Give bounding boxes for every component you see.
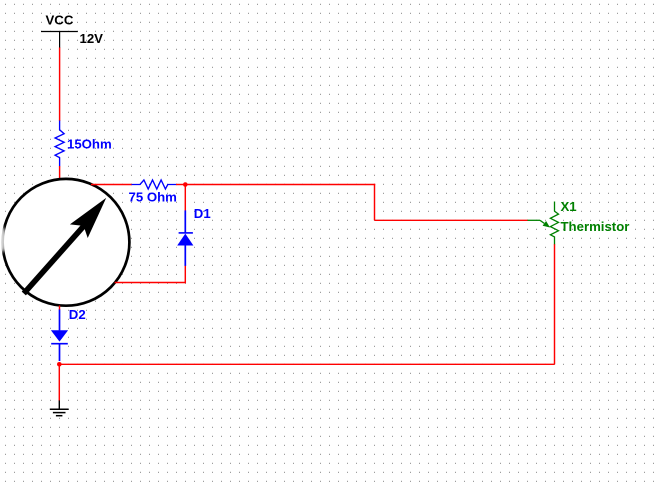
wire meter right to R 75 Ohm [91,184,132,186]
wire meter bottom to D2 [59,306,61,311]
wire VCC to R 15Ohm [59,48,61,122]
resistor 15Ohm [55,121,112,167]
wire vertical step down [374,184,376,221]
svg-text:D2: D2 [69,307,86,322]
svg-text:Thermistor: Thermistor [561,219,630,234]
junction node A [183,182,188,187]
svg-text:D1: D1 [194,206,211,221]
meter needle arrow [24,224,86,294]
meter (galvanometer) circle [3,179,130,306]
diode D1 [177,206,210,266]
junction node B (ground node) [57,362,62,367]
diode D2 [51,307,86,361]
svg-text:15Ohm: 15Ohm [67,137,112,152]
wire thermistor bottom vertical [554,244,556,364]
svg-text:75 Ohm: 75 Ohm [129,190,177,205]
svg-text:X1: X1 [561,199,577,214]
wire ground node down to ground [58,364,60,400]
power VCC symbol [41,12,103,48]
wire R 75 Ohm to junction [176,184,185,186]
thermistor X1 [528,199,630,244]
left edge artifact (faded circle stroke) [0,227,6,253]
ground [50,400,69,415]
wire step to thermistor [375,219,529,221]
wire junction down to D1 [184,185,186,211]
svg-text:12V: 12V [80,31,104,46]
wire D1 bottom corner [184,266,186,283]
wire ground node to thermistor bottom (long horizontal) [59,363,554,365]
wire D1 to meter right-bottom [115,282,186,284]
resistor 75 Ohm [129,180,177,205]
wire R 15Ohm to meter top [59,166,61,180]
wire junction to right corner [185,184,375,186]
svg-text:VCC: VCC [46,12,74,27]
